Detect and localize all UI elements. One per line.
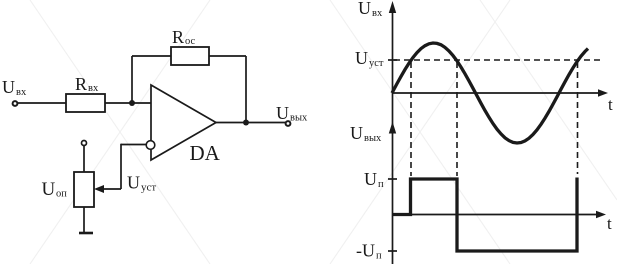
svg-text:t: t [608, 95, 613, 114]
inverting input circle [146, 141, 155, 150]
wire feedback down to output [245, 56, 247, 122]
label Uуст (graph 1) [355, 48, 384, 69]
wire inverting input horizontal [121, 144, 147, 146]
wire terminal to potentiometer [83, 146, 85, 172]
label Rвх [75, 74, 99, 94]
svg-text:U: U [127, 173, 140, 193]
op-amp DA [151, 85, 216, 160]
dashed level line Uуст [394, 59, 604, 61]
axis Uвых arrowhead (graph 2) [389, 122, 396, 134]
wire input to Rвх [18, 102, 66, 104]
tick -Uп level [388, 250, 397, 252]
axis Uвх vertical (graph 1) [392, 5, 394, 264]
dashed vertical line 1 [410, 62, 412, 176]
svg-text:U: U [358, 0, 371, 18]
wire op-amp output [216, 122, 286, 124]
node potentiometer top terminal [82, 141, 87, 146]
svg-text:U: U [364, 169, 377, 189]
label Uвых (graph 2) [350, 123, 382, 144]
label Uвых [276, 103, 308, 124]
label Uуст [127, 173, 156, 194]
square wave Uвых(t) [393, 178, 577, 252]
svg-text:U: U [276, 103, 289, 123]
wire junction up to feedback [131, 56, 133, 103]
label Uоп [42, 179, 68, 200]
wire Rвх to op-amp input [105, 102, 151, 104]
sine wave Uвх(t) [392, 43, 588, 143]
ground [79, 232, 93, 235]
svg-text:U: U [355, 48, 368, 68]
svg-text:ос: ос [185, 36, 196, 47]
node Uвых output terminal [286, 121, 291, 126]
svg-text:п: п [376, 251, 382, 262]
label -Uп [356, 241, 382, 262]
wire wiper horizontal [100, 188, 121, 190]
label Uп [364, 169, 384, 190]
node Uвх input terminal [13, 101, 18, 106]
wire inverting input vertical [120, 144, 122, 189]
svg-text:уст: уст [141, 182, 156, 194]
label Uвх (graph 1) [358, 0, 383, 19]
svg-text:вых: вых [364, 133, 382, 144]
svg-text:R: R [172, 27, 184, 47]
wire potentiometer to ground [83, 207, 85, 233]
junction node output [243, 120, 249, 126]
dashed vertical line 2 [456, 62, 458, 176]
svg-text:U: U [42, 179, 56, 200]
svg-text:t: t [607, 214, 612, 233]
wiper arrowhead [94, 185, 104, 193]
resistor Rос [171, 47, 209, 65]
svg-text:DA: DA [190, 141, 221, 165]
svg-text:R: R [75, 74, 87, 94]
potentiometer Uоп [74, 172, 94, 207]
svg-text:п: п [378, 179, 384, 190]
svg-text:вх: вх [16, 87, 27, 98]
svg-text:вых: вых [290, 113, 308, 124]
svg-text:уст: уст [369, 58, 384, 69]
axis t (graph 1) [393, 92, 601, 94]
svg-text:вх: вх [372, 8, 383, 19]
label Uвх [2, 77, 27, 98]
label Rос [172, 27, 196, 47]
wire feedback left segment [132, 55, 171, 57]
svg-text:оп: оп [56, 189, 67, 200]
dashed vertical line 3 [577, 62, 579, 174]
wire feedback right segment [209, 55, 246, 57]
svg-text:-U: -U [356, 241, 375, 261]
tick Uп level [388, 178, 397, 180]
svg-text:U: U [2, 77, 15, 97]
svg-text:вх: вх [88, 83, 99, 94]
tick Uуст level [388, 59, 397, 61]
resistor Rвх [66, 94, 105, 112]
svg-text:U: U [350, 123, 363, 143]
axis t (graph 2) [393, 214, 599, 216]
junction node at inverting path [129, 100, 135, 106]
